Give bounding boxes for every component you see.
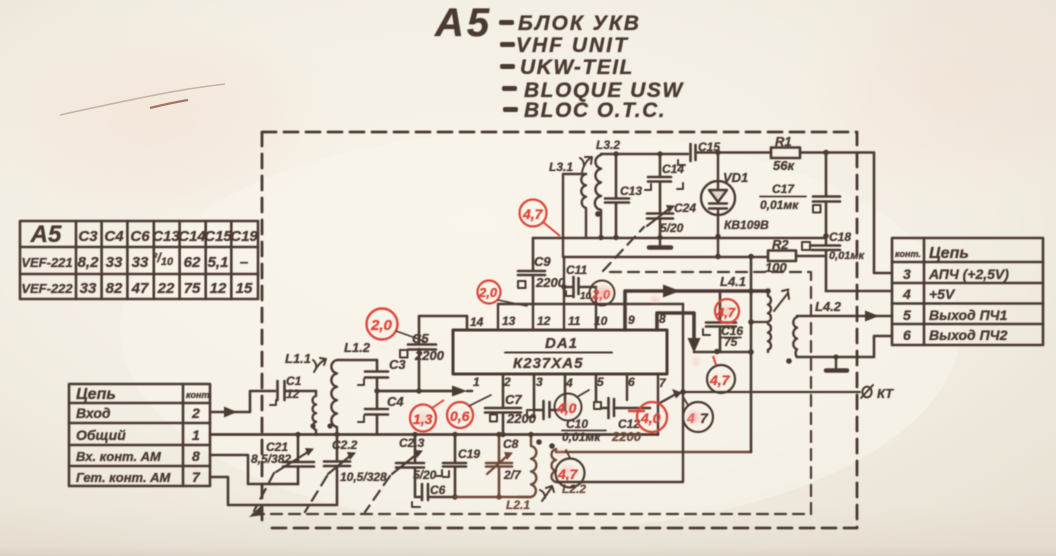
svg-text:C6: C6 bbox=[130, 228, 150, 245]
wire R1 right / AFC out bbox=[800, 153, 892, 274]
svg-text:Вход: Вход bbox=[76, 405, 111, 421]
red voltage annotation 4,7 at L3.1 bbox=[520, 200, 561, 237]
capacitor C10 0,01мк between pin3 and pin4 bbox=[534, 374, 565, 419]
oscillator tank bottom rail (wire1) bbox=[533, 237, 826, 239]
svg-text:C6: C6 bbox=[430, 483, 446, 497]
svg-text:L3.1: L3.1 bbox=[549, 160, 573, 174]
capacitor C17 0,01мк bbox=[813, 153, 840, 237]
svg-text:Цепь: Цепь bbox=[929, 245, 969, 262]
svg-text:0,6: 0,6 bbox=[450, 408, 470, 424]
svg-text:C15: C15 bbox=[204, 228, 232, 245]
node dot L1.1 bbox=[310, 423, 315, 428]
svg-text:UKW-TEIL: UKW-TEIL bbox=[520, 56, 634, 79]
svg-text:2: 2 bbox=[191, 405, 200, 421]
wire: C16 bottom rail bbox=[694, 351, 751, 354]
svg-text:C13: C13 bbox=[152, 228, 180, 245]
pin numbers bottom row bbox=[473, 375, 667, 390]
svg-text:L3.2: L3.2 bbox=[596, 138, 620, 152]
red voltage annotation 1,3 at pin1 bbox=[410, 400, 444, 432]
wire: input from pin2 of left table bbox=[210, 391, 275, 412]
node C3/C4 tap bbox=[374, 388, 379, 393]
svg-text:–: – bbox=[240, 254, 248, 271]
svg-text:1,3: 1,3 bbox=[413, 411, 433, 427]
faint scratch artifact top-left bbox=[60, 84, 225, 115]
wire: L2.2 bottom loop to KT node bbox=[556, 304, 683, 482]
svg-text:100: 100 bbox=[765, 260, 787, 275]
svg-text:4: 4 bbox=[686, 410, 695, 426]
svg-text:2/7: 2/7 bbox=[503, 468, 522, 482]
svg-text:Цепь: Цепь bbox=[76, 386, 116, 403]
capacitor C9 2200 on pin12 riser bbox=[518, 238, 545, 304]
svg-text:0,01мк: 0,01мк bbox=[760, 198, 799, 212]
inductor L2.2 bbox=[551, 449, 556, 482]
svg-text:12: 12 bbox=[210, 280, 227, 297]
svg-text:C9: C9 bbox=[534, 254, 551, 269]
bottom wire C2.3/C6/C19/C8/L2.1 bbox=[455, 496, 531, 498]
red voltage annotation 2,0 at pin13 bbox=[478, 281, 528, 307]
svg-text:C3: C3 bbox=[389, 357, 406, 372]
inductor L3.2 bbox=[595, 154, 601, 238]
oscillator: AFC line (wire2) bbox=[563, 256, 768, 258]
svg-text:VD1: VD1 bbox=[723, 170, 748, 185]
svg-text:22: 22 bbox=[157, 280, 175, 297]
svg-text:C5: C5 bbox=[412, 331, 429, 346]
svg-text:5,1: 5,1 bbox=[208, 254, 229, 271]
svg-text:14: 14 bbox=[470, 315, 484, 329]
L4.1 feed vertical from R2 node bbox=[750, 256, 753, 452]
varicap diode VD1 КВ109В bbox=[701, 181, 735, 215]
svg-text:L4.1: L4.1 bbox=[720, 274, 746, 289]
svg-text:конт.: конт. bbox=[895, 249, 921, 259]
L3.1 core adjust arrow bbox=[580, 157, 592, 172]
red voltage annotation 0,6 at pin2 bbox=[447, 395, 491, 428]
svg-text:11: 11 bbox=[568, 314, 581, 328]
resistor R1 56к bbox=[771, 148, 800, 159]
svg-text:4,7: 4,7 bbox=[709, 372, 731, 388]
svg-text:C17: C17 bbox=[772, 182, 795, 196]
svg-text:2,0: 2,0 bbox=[478, 285, 498, 300]
node dot C5 tap bbox=[416, 388, 421, 393]
wire: table pin8 to C21 bottom bbox=[210, 455, 298, 484]
svg-text:2200: 2200 bbox=[535, 275, 566, 290]
svg-text:4,0: 4,0 bbox=[640, 410, 661, 426]
svg-text:VHF UNIT: VHF UNIT bbox=[516, 34, 629, 57]
capacitor C4 bbox=[365, 409, 388, 435]
svg-text:8: 8 bbox=[192, 448, 200, 464]
svg-text:1: 1 bbox=[192, 427, 200, 443]
KT test point label bbox=[861, 385, 873, 398]
svg-text:C24: C24 bbox=[674, 201, 696, 215]
svg-text:L2.1: L2.1 bbox=[506, 498, 530, 512]
svg-text:10,5/328: 10,5/328 bbox=[340, 470, 387, 484]
svg-text:15: 15 bbox=[236, 280, 253, 297]
svg-text:C10: C10 bbox=[566, 417, 588, 431]
svg-text:2,0: 2,0 bbox=[370, 317, 393, 334]
svg-text:К237ХА5: К237ХА5 bbox=[513, 355, 583, 372]
svg-text:C11: C11 bbox=[566, 263, 587, 277]
svg-text:C2.2: C2.2 bbox=[332, 438, 358, 452]
ground rail (Общий) bbox=[210, 433, 658, 436]
capacitor C19 bbox=[443, 435, 466, 498]
dashed unit border (outer) bbox=[262, 132, 857, 528]
svg-text:Гет. конт. АМ: Гет. конт. АМ bbox=[76, 470, 172, 485]
input arrowhead bbox=[224, 407, 237, 418]
svg-text:C1: C1 bbox=[286, 374, 302, 388]
svg-text:82: 82 bbox=[106, 280, 123, 297]
svg-text:0,01мк: 0,01мк bbox=[829, 250, 866, 262]
wire: table pin7 to C2.2 bottom bbox=[210, 467, 337, 505]
svg-text:10: 10 bbox=[594, 314, 608, 328]
inductor L3.1 bbox=[581, 174, 586, 238]
svg-text:C7: C7 bbox=[505, 392, 522, 407]
svg-text:C4: C4 bbox=[387, 394, 404, 409]
inductor L1.1 bbox=[313, 391, 316, 435]
capacitor C16 75 bbox=[706, 291, 736, 352]
variable capacitor C8 2/7 bbox=[486, 435, 512, 498]
svg-text:C2.3: C2.3 bbox=[399, 436, 425, 450]
gang line left arrowhead bbox=[249, 505, 264, 517]
svg-text:C4: C4 bbox=[104, 228, 124, 245]
L4.1 core adjust arrow bbox=[774, 290, 789, 312]
capacitor C14 bbox=[648, 154, 671, 213]
wire: L4.2 bottom to table pin6 bbox=[797, 336, 892, 357]
svg-text:12: 12 bbox=[286, 387, 300, 401]
svg-text:C19: C19 bbox=[458, 447, 480, 461]
svg-text:C18: C18 bbox=[829, 230, 851, 244]
red voltage annotation 4,0 at C12 bbox=[628, 402, 667, 432]
L2 core adjust arrow bbox=[540, 486, 554, 501]
svg-text:C13: C13 bbox=[620, 184, 642, 198]
node dot L1.2 bbox=[327, 423, 332, 428]
svg-text:4,7: 4,7 bbox=[522, 206, 544, 222]
svg-text:62: 62 bbox=[184, 254, 201, 271]
svg-text:Выход ПЧ2: Выход ПЧ2 bbox=[929, 327, 1008, 343]
svg-text:L1.2: L1.2 bbox=[344, 340, 371, 355]
variable capacitor C2.2 10,5/328 bbox=[324, 435, 350, 467]
svg-text:9: 9 bbox=[628, 313, 635, 327]
svg-text:АПЧ (+2,5V): АПЧ (+2,5V) bbox=[928, 266, 1009, 282]
capacitor variants table (VEF-221 / VEF-222) bbox=[20, 221, 258, 299]
red voltage annotation 4,7 at C16 bbox=[715, 299, 739, 323]
svg-text:4: 4 bbox=[902, 286, 911, 302]
svg-text:L2.2: L2.2 bbox=[562, 482, 586, 496]
svg-text:C19: C19 bbox=[230, 228, 258, 245]
svg-text:VEF-222: VEF-222 bbox=[21, 281, 73, 296]
svg-text:13: 13 bbox=[502, 314, 516, 328]
svg-text:Общий: Общий bbox=[76, 427, 126, 443]
variable capacitor C2.3 5/20 bbox=[396, 435, 424, 498]
svg-text:L4.2: L4.2 bbox=[815, 299, 842, 314]
wire: tap to IC pin1 with arrow bbox=[377, 390, 455, 393]
svg-text:33: 33 bbox=[80, 280, 97, 297]
wire: thick pin8 loop with down arrow bbox=[657, 313, 694, 340]
svg-text:Выход ПЧ1: Выход ПЧ1 bbox=[929, 307, 1008, 323]
pin numbers top row bbox=[470, 312, 666, 329]
svg-text:47: 47 bbox=[131, 280, 149, 297]
ground under oscillator rail bbox=[659, 238, 661, 246]
svg-text:4,7: 4,7 bbox=[557, 466, 579, 482]
svg-text:3: 3 bbox=[536, 375, 543, 389]
svg-text:2200: 2200 bbox=[506, 411, 537, 426]
svg-text:0,01мк: 0,01мк bbox=[562, 430, 601, 444]
svg-text:33: 33 bbox=[132, 254, 149, 271]
svg-text:C14: C14 bbox=[178, 228, 206, 245]
capacitor C11 10 bbox=[564, 277, 596, 297]
L1.1 core adjust arrow bbox=[313, 358, 326, 372]
svg-text:5/20: 5/20 bbox=[660, 221, 684, 235]
inductor L1.2 bbox=[331, 360, 377, 435]
capacitor C15 bbox=[691, 144, 772, 161]
right connector table (конт/Цепь) bbox=[892, 238, 1043, 345]
dashed mechanical gang link line bbox=[253, 227, 811, 514]
red voltage annotation 4,7 at L4.1 bottom bbox=[707, 356, 735, 393]
wire: L2.2 top to L4.1 bottom rail bbox=[556, 451, 751, 453]
svg-text:C3: C3 bbox=[78, 228, 98, 245]
svg-text:8,5/382: 8,5/382 bbox=[251, 452, 291, 466]
ground at L4.2 bbox=[835, 357, 837, 369]
svg-text:R2: R2 bbox=[772, 237, 789, 252]
wire: L4.2 top to table pin5 with arrow bbox=[797, 315, 892, 318]
capacitor C3 bbox=[365, 360, 388, 409]
pin2 riser and capacitor C7 2200 bbox=[485, 374, 521, 435]
capacitor C1 12 bbox=[278, 381, 317, 400]
svg-text:А5: А5 bbox=[434, 1, 492, 45]
svg-text:Вх. конт. АМ: Вх. конт. АМ bbox=[76, 449, 162, 464]
svg-text:4,7: 4,7 bbox=[716, 305, 736, 320]
pin5 riser, terminal square, capacitor C12 2200 bbox=[595, 374, 598, 402]
svg-text:+5V: +5V bbox=[929, 286, 956, 302]
svg-text:75: 75 bbox=[184, 280, 201, 297]
svg-text:5: 5 bbox=[597, 375, 604, 389]
svg-text:5/20: 5/20 bbox=[413, 468, 437, 482]
svg-text:DA1: DA1 bbox=[545, 335, 578, 352]
svg-text:R1: R1 bbox=[775, 134, 792, 149]
winding polarity dots L2.1 L2.2 bbox=[536, 439, 542, 445]
red voltage annotation 2,0 at C5/pin14 bbox=[367, 309, 425, 342]
title A5 block heading bbox=[434, 1, 684, 122]
svg-text:6: 6 bbox=[628, 375, 635, 389]
wire: KT test point bbox=[683, 391, 860, 393]
C12 wire arrow into KT node bbox=[658, 394, 676, 404]
resistor R2 100 bbox=[768, 251, 796, 262]
svg-text:А5: А5 bbox=[30, 221, 62, 248]
variable capacitor C24 5/20 bbox=[647, 214, 673, 239]
svg-text:BLOC O.T.C.: BLOC O.T.C. bbox=[524, 99, 666, 122]
svg-text:конт.: конт. bbox=[186, 390, 212, 400]
svg-text:VEF-221: VEF-221 bbox=[21, 255, 72, 270]
red voltage annotation 4,7 at L2.2 bbox=[556, 450, 585, 488]
svg-text:8,2: 8,2 bbox=[78, 254, 100, 271]
svg-text:1: 1 bbox=[473, 375, 480, 389]
svg-text:6: 6 bbox=[903, 327, 911, 343]
inductor L4.2 bbox=[793, 316, 797, 357]
inductor L4.1 with tap bbox=[768, 291, 771, 352]
wire +5V to table pin4 bbox=[826, 290, 892, 293]
capacitor C13 bbox=[605, 154, 629, 238]
svg-text:33: 33 bbox=[106, 254, 123, 271]
svg-text:БЛОК УКВ: БЛОК УКВ bbox=[518, 12, 641, 35]
svg-text:4,0: 4,0 bbox=[556, 400, 577, 416]
red voltage annotation 4,7 at KT node (smudged) bbox=[683, 397, 713, 432]
red voltage annotation 4,0 at C10 bbox=[555, 390, 590, 421]
svg-text:7: 7 bbox=[700, 410, 709, 426]
svg-text:КТ: КТ bbox=[877, 386, 894, 401]
IC top pin wires bbox=[498, 287, 683, 330]
svg-text:5: 5 bbox=[903, 307, 911, 323]
pin6 stub bbox=[626, 374, 628, 400]
svg-text:7: 7 bbox=[192, 469, 201, 485]
svg-text:2200: 2200 bbox=[414, 348, 445, 363]
inductor L2.1 bbox=[518, 435, 536, 498]
red voltage annotation 2,0 at pin10 (smudged) bbox=[590, 281, 615, 306]
svg-text:56к: 56к bbox=[773, 158, 795, 173]
svg-text:3: 3 bbox=[903, 266, 911, 282]
capacitor C5 2200 bbox=[408, 316, 467, 391]
left connector table (Цепь/конт) bbox=[69, 384, 210, 486]
IC DA1 K237XA5 bbox=[453, 330, 667, 374]
oscillator tank top rail bbox=[601, 153, 688, 155]
wire: thick pin9 to L4.1 bbox=[625, 291, 768, 330]
variable capacitor C21 8,5/382 bbox=[283, 435, 314, 485]
capacitor C18 0,01мк bbox=[812, 236, 840, 291]
svg-text:КВ109В: КВ109В bbox=[724, 218, 769, 232]
pin7 riser to ground rail bbox=[657, 374, 659, 435]
pink ink-bleed smudges bbox=[648, 294, 662, 306]
capacitor C6 bbox=[422, 484, 455, 500]
svg-text:2200: 2200 bbox=[611, 429, 642, 444]
svg-text:12: 12 bbox=[537, 314, 551, 328]
svg-text:L1.1: L1.1 bbox=[285, 351, 311, 366]
wire pin11 riser to AFC line bbox=[563, 257, 565, 304]
svg-text:C8: C8 bbox=[503, 437, 519, 451]
